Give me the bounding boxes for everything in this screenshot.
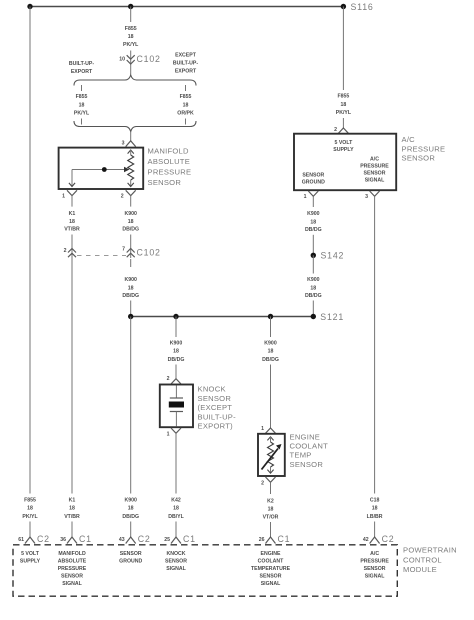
- wire to splice S142: [312, 235, 314, 256]
- MAP wiper arm: [69, 167, 130, 187]
- svg-text:26: 26: [259, 537, 265, 543]
- svg-text:TEMPERATURE: TEMPERATURE: [251, 566, 291, 572]
- resistor MAP element: [128, 150, 134, 187]
- svg-text:SENSOR: SENSOR: [148, 178, 182, 187]
- svg-text:SENSOR: SENSOR: [364, 171, 386, 177]
- svg-text:PK/YL: PK/YL: [336, 110, 352, 116]
- svg-text:COOLANT: COOLANT: [290, 442, 329, 451]
- PCM powertrain control module box (dashed): [13, 545, 397, 596]
- svg-text:SUPPLY: SUPPLY: [333, 147, 354, 153]
- svg-text:BUILT-UP-: BUILT-UP-: [198, 412, 237, 421]
- label BUILT-UP-EXPORT (left branch): [69, 61, 95, 75]
- svg-text:K900: K900: [307, 211, 320, 217]
- svg-text:18: 18: [79, 102, 85, 108]
- svg-text:C2: C2: [37, 534, 50, 544]
- label EXCEPT BUILT-UP-EXPORT (right branch): [173, 53, 199, 75]
- svg-text:K42: K42: [171, 498, 181, 504]
- node ground bus / knock sensor tap: [173, 314, 178, 319]
- svg-text:VT/BR: VT/BR: [64, 514, 80, 520]
- PCM pin 42 C2: [363, 522, 395, 545]
- PCM pin 25 C1: [164, 522, 196, 545]
- svg-text:K900: K900: [124, 211, 137, 217]
- svg-text:3: 3: [122, 141, 125, 147]
- svg-text:F855: F855: [24, 498, 36, 504]
- label wire F855 18 OR/PK (right branch): [177, 94, 194, 117]
- svg-text:K900: K900: [307, 277, 320, 283]
- knock sensor pin 2: [167, 365, 181, 385]
- svg-text:MANIFOLD: MANIFOLD: [58, 551, 86, 557]
- svg-text:18: 18: [128, 219, 134, 225]
- svg-text:SENSOR: SENSOR: [260, 574, 282, 580]
- svg-text:C2: C2: [138, 534, 151, 544]
- svg-text:61: 61: [18, 537, 24, 543]
- svg-text:SENSOR: SENSOR: [120, 551, 142, 557]
- svg-text:MANIFOLD: MANIFOLD: [148, 147, 190, 156]
- label wire K900 18 DB/DG (coolant branch): [262, 341, 279, 364]
- A/C sensor pin 2: [334, 118, 348, 133]
- svg-text:43: 43: [119, 537, 125, 543]
- label wire K1 18 VT/BR (upper): [64, 211, 80, 233]
- label wire F855 18 PK/YL (center top): [123, 26, 139, 48]
- svg-text:K900: K900: [124, 277, 137, 283]
- label wire F855 18 PK/YL (left branch): [74, 94, 90, 117]
- svg-text:18: 18: [27, 506, 33, 512]
- label wire K900 18 DB/DG (above ground bus): [122, 277, 139, 299]
- svg-text:GROUND: GROUND: [119, 558, 142, 564]
- svg-text:PK/YL: PK/YL: [123, 42, 139, 48]
- wire stub below center junction: [130, 7, 132, 23]
- svg-text:F855: F855: [337, 94, 349, 100]
- svg-text:PK/YL: PK/YL: [22, 514, 38, 520]
- svg-text:DB/DG: DB/DG: [262, 357, 279, 363]
- svg-text:18: 18: [69, 219, 75, 225]
- label wire K900 18 DB/DG (below MAP pin 2): [122, 211, 139, 233]
- svg-text:DB/DG: DB/DG: [305, 227, 322, 233]
- svg-text:18: 18: [310, 219, 316, 225]
- svg-text:K900: K900: [170, 341, 183, 347]
- svg-text:36: 36: [60, 537, 66, 543]
- label SENSOR GROUND (inside A/C box): [302, 173, 325, 186]
- svg-text:ABSOLUTE: ABSOLUTE: [58, 558, 87, 564]
- node ground bus / coolant sensor tap: [268, 314, 273, 319]
- svg-text:EXCEPT: EXCEPT: [175, 53, 197, 59]
- svg-text:DB/YL: DB/YL: [168, 514, 184, 520]
- svg-text:2: 2: [261, 481, 264, 487]
- svg-text:K900: K900: [124, 498, 137, 504]
- wire left branch ticks: [81, 85, 83, 125]
- svg-text:VT/OR: VT/OR: [263, 515, 279, 521]
- wire S142 to label: [312, 255, 314, 273]
- svg-text:BUILT-UP-: BUILT-UP-: [173, 61, 199, 67]
- svg-text:SENSOR: SENSOR: [61, 574, 83, 580]
- splice S142: [311, 251, 345, 261]
- PCM pin 43 C2: [119, 522, 151, 545]
- svg-text:2: 2: [64, 248, 67, 254]
- svg-text:2: 2: [167, 376, 170, 382]
- svg-text:F855: F855: [76, 94, 88, 100]
- svg-text:SUPPLY: SUPPLY: [20, 558, 41, 564]
- svg-text:PRESSURE: PRESSURE: [58, 566, 87, 572]
- PCM pin 36 C1: [60, 522, 92, 545]
- MAP sensor box U1: [59, 148, 144, 189]
- label ENGINE COOLANT TEMP SENSOR: [290, 432, 329, 469]
- svg-text:ENGINE: ENGINE: [290, 432, 321, 441]
- label wire K900 18 DB/DG (knock branch): [168, 341, 185, 364]
- svg-text:PRESSURE: PRESSURE: [360, 558, 389, 564]
- label MANIFOLD ABSOLUTE PRESSURE SENSOR: [148, 147, 192, 187]
- svg-text:F855: F855: [125, 26, 137, 32]
- svg-text:C18: C18: [370, 498, 380, 504]
- svg-text:18: 18: [268, 349, 274, 355]
- wire stub K900 above C102: [130, 235, 132, 259]
- wire F855 left drop to PCM: [29, 7, 31, 494]
- svg-text:DB/DG: DB/DG: [122, 293, 139, 299]
- svg-text:2: 2: [334, 127, 337, 133]
- label KNOCK SENSOR SIGNAL (PCM): [165, 551, 187, 572]
- svg-text:1: 1: [304, 194, 307, 200]
- svg-text:10: 10: [119, 57, 125, 63]
- label wire K900 18 DB/DG (S142-S121): [305, 277, 322, 299]
- knock sensor box U3: [160, 385, 193, 428]
- svg-text:BUILT-UP-: BUILT-UP-: [69, 61, 95, 67]
- svg-text:3: 3: [365, 194, 368, 200]
- svg-text:VT/BR: VT/BR: [64, 227, 80, 233]
- MAP sensor pin 2: [121, 190, 136, 206]
- svg-text:18: 18: [69, 506, 75, 512]
- label ENGINE COOLANT TEMPERATURE SENSOR SIGNAL (PCM): [251, 551, 291, 587]
- svg-text:5 VOLT: 5 VOLT: [21, 551, 40, 557]
- svg-text:A/C: A/C: [370, 551, 379, 557]
- svg-text:18: 18: [183, 102, 189, 108]
- svg-text:18: 18: [128, 285, 134, 291]
- svg-text:SENSOR: SENSOR: [198, 394, 232, 403]
- svg-text:EXPORT: EXPORT: [175, 69, 197, 75]
- svg-text:C1: C1: [183, 534, 196, 544]
- wire K900 ground bus to PCM: [130, 317, 132, 494]
- svg-text:18: 18: [310, 285, 316, 291]
- MAP sensor pin 3: [122, 132, 136, 147]
- label wire K42 18 DB/YL (bottom): [168, 498, 184, 520]
- svg-text:1: 1: [261, 426, 264, 432]
- wire right branch ticks: [185, 85, 187, 125]
- svg-text:KNOCK: KNOCK: [198, 385, 226, 394]
- MAP sensor pin 1: [62, 190, 77, 206]
- svg-text:18: 18: [173, 349, 179, 355]
- wire coolant sensor ground drop: [270, 317, 272, 338]
- svg-text:K900: K900: [264, 341, 277, 347]
- wire sensor ground bus: [131, 316, 314, 318]
- svg-text:EXPORT): EXPORT): [198, 422, 234, 431]
- node center junction: [128, 4, 133, 9]
- svg-text:CONTROL: CONTROL: [403, 555, 442, 564]
- svg-text:POWERTRAIN: POWERTRAIN: [403, 546, 457, 555]
- label POWERTRAIN CONTROL MODULE: [403, 546, 457, 575]
- wire F855 drop to A/C sensor: [342, 7, 344, 91]
- svg-text:S121: S121: [320, 312, 344, 322]
- capacitor knock piezo element: [169, 386, 184, 427]
- label 5 VOLT SUPPLY (PCM): [20, 551, 41, 565]
- connector C102 pin 2: [64, 248, 76, 257]
- A/C sensor pin 1: [304, 191, 319, 207]
- node ground bus / K900 drop: [128, 314, 133, 319]
- svg-text:K1: K1: [69, 498, 76, 504]
- PCM pin 61 C2: [18, 522, 50, 545]
- svg-text:SENSOR: SENSOR: [364, 566, 386, 572]
- svg-text:18: 18: [341, 102, 347, 108]
- svg-text:C1: C1: [79, 534, 92, 544]
- svg-text:ABSOLUTE: ABSOLUTE: [148, 157, 191, 166]
- A/C sensor pin 3: [365, 191, 379, 494]
- coolant sensor pin 2: [261, 477, 275, 494]
- splice S121: [311, 312, 344, 322]
- resistor coolant thermistor: [262, 437, 282, 473]
- svg-text:SIGNAL: SIGNAL: [62, 581, 82, 587]
- svg-text:PRESSURE: PRESSURE: [148, 167, 192, 176]
- svg-text:18: 18: [128, 506, 134, 512]
- svg-text:5 VOLT: 5 VOLT: [335, 140, 354, 146]
- wire K900 between C102 and ground bus: [130, 259, 132, 317]
- svg-text:S142: S142: [321, 251, 345, 261]
- svg-text:(EXCEPT: (EXCEPT: [198, 403, 233, 412]
- svg-text:LB/BR: LB/BR: [367, 514, 383, 520]
- svg-text:DB/DG: DB/DG: [305, 293, 322, 299]
- splice S116: [341, 2, 374, 12]
- label wire F855 18 PK/YL (A/C supply): [336, 94, 352, 117]
- label wire K1 18 VT/BR (bottom): [64, 498, 80, 520]
- wire merge brace: [74, 121, 196, 132]
- svg-text:DB/DG: DB/DG: [168, 357, 185, 363]
- svg-text:OR/PK: OR/PK: [177, 111, 194, 117]
- svg-text:2: 2: [121, 194, 124, 200]
- wire dashed connector C102 link: [77, 255, 126, 257]
- wire K1 drop segment: [71, 258, 73, 494]
- label wire K900 18 DB/DG (bottom): [122, 498, 139, 520]
- wire knock sensor ground drop: [175, 317, 177, 338]
- svg-text:MODULE: MODULE: [403, 565, 437, 574]
- svg-text:1: 1: [62, 194, 65, 200]
- svg-text:A/C: A/C: [370, 157, 379, 163]
- svg-text:SIGNAL: SIGNAL: [365, 178, 385, 184]
- wire label to splice S121: [312, 301, 314, 317]
- PCM pin 26 C1: [259, 522, 291, 544]
- svg-text:18: 18: [268, 507, 274, 513]
- svg-text:SENSOR: SENSOR: [302, 173, 324, 179]
- svg-text:18: 18: [173, 506, 179, 512]
- node left corner junction: [27, 4, 32, 9]
- coolant sensor pin 1: [261, 365, 275, 434]
- svg-text:GROUND: GROUND: [302, 180, 325, 186]
- label 5 VOLT SUPPLY (inside A/C box): [333, 140, 354, 153]
- svg-text:SENSOR: SENSOR: [290, 460, 324, 469]
- connector C102 pin 10: [119, 54, 161, 64]
- svg-text:F855: F855: [180, 94, 192, 100]
- svg-text:DB/DG: DB/DG: [122, 514, 139, 520]
- label wire K2 18 VT/OR (bottom): [263, 498, 279, 520]
- svg-text:K1: K1: [69, 211, 76, 217]
- knock sensor pin 1: [167, 428, 181, 494]
- label SENSOR GROUND (PCM): [119, 551, 142, 565]
- svg-text:42: 42: [363, 537, 369, 543]
- label A/C PRESSURE SENSOR SIGNAL (PCM): [360, 551, 389, 580]
- svg-text:PRESSURE: PRESSURE: [402, 144, 446, 153]
- label MANIFOLD ABSOLUTE PRESSURE SENSOR SIGNAL (PCM): [58, 551, 87, 587]
- label A/C PRESSURE SENSOR SIGNAL (inside A/C box): [360, 157, 389, 184]
- label A/C PRESSURE SENSOR: [402, 135, 446, 163]
- engine coolant temp sensor box U4: [258, 434, 285, 476]
- svg-text:18: 18: [128, 34, 134, 40]
- svg-text:S116: S116: [351, 2, 374, 12]
- label wire F855 18 PK/YL (bottom): [22, 498, 38, 520]
- label wire C18 18 LB/BR (bottom): [367, 498, 383, 520]
- svg-text:PK/YL: PK/YL: [74, 111, 90, 117]
- svg-text:COOLANT: COOLANT: [258, 558, 284, 564]
- svg-text:SIGNAL: SIGNAL: [166, 566, 186, 572]
- wire split brace: [74, 75, 196, 86]
- connector C102 pin 7: [122, 247, 161, 258]
- svg-text:C102: C102: [137, 248, 161, 258]
- svg-text:EXPORT: EXPORT: [71, 69, 93, 75]
- wire stub K1 above C102: [71, 235, 73, 259]
- svg-text:ENGINE: ENGINE: [261, 551, 281, 557]
- svg-text:C102: C102: [137, 54, 161, 64]
- svg-text:25: 25: [164, 537, 170, 543]
- wire stub above connector C102: [130, 51, 132, 75]
- label wire K900 18 DB/DG (A/C ground upper): [305, 211, 322, 233]
- svg-text:KNOCK: KNOCK: [166, 551, 185, 557]
- svg-text:PRESSURE: PRESSURE: [360, 164, 389, 170]
- svg-text:SENSOR: SENSOR: [402, 154, 436, 163]
- svg-text:TEMP: TEMP: [290, 451, 312, 460]
- svg-text:C1: C1: [278, 534, 291, 544]
- svg-text:SENSOR: SENSOR: [165, 558, 187, 564]
- svg-text:DB/DG: DB/DG: [122, 227, 139, 233]
- A/C pressure sensor box U2: [294, 134, 396, 191]
- svg-text:7: 7: [122, 247, 125, 253]
- svg-text:K2: K2: [267, 498, 274, 504]
- svg-text:A/C: A/C: [402, 135, 416, 144]
- svg-text:18: 18: [372, 506, 378, 512]
- label KNOCK SENSOR (EXCEPT BUILT-UP-EXPORT): [198, 385, 237, 431]
- svg-text:C2: C2: [382, 534, 395, 544]
- wire top 5-volt supply bus: [30, 6, 343, 8]
- svg-text:SIGNAL: SIGNAL: [365, 574, 385, 580]
- svg-text:1: 1: [167, 432, 170, 438]
- svg-text:SIGNAL: SIGNAL: [261, 581, 281, 587]
